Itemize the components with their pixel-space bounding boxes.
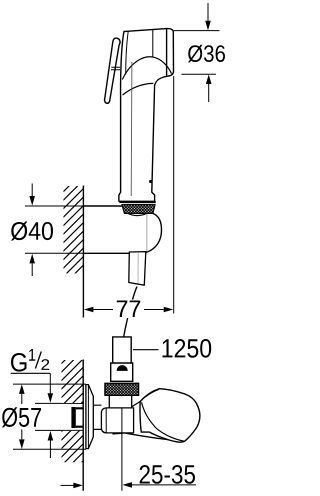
riser tube — [113, 337, 132, 363]
dimension Ø57 — [13, 384, 86, 449]
dimension Ø40 — [25, 184, 83, 277]
Ø36 arrowhead top — [205, 21, 211, 31]
valve bottom step and cone bottom — [113, 433, 125, 434]
wall face line (bottom) — [82, 360, 84, 491]
77 arrowhead left — [84, 307, 94, 313]
Ø40 value text — [11, 222, 53, 241]
hose nut (knurled) — [119, 202, 156, 216]
77 arrowhead right — [164, 307, 174, 313]
head inner arc upper — [122, 57, 171, 80]
Ø36 arrowhead bottom — [206, 74, 212, 84]
25-35 arrowhead left-pointing — [122, 482, 132, 488]
fraction slash — [35, 352, 41, 369]
handle shading line — [130, 62, 133, 196]
25-35 value text — [140, 465, 195, 484]
rim inner line — [166, 29, 168, 77]
fraction numerator 1 — [29, 349, 35, 361]
Ø36 value text — [188, 45, 225, 63]
wall stub pipe — [35, 403, 83, 430]
G1/2 arrowhead down — [48, 393, 54, 403]
union nut (knurled) — [105, 383, 139, 395]
wall hatch (top) — [64, 186, 84, 273]
77 text mask — [115, 300, 143, 319]
head left inner line — [126, 31, 129, 74]
hose — [124, 287, 137, 337]
25-35 arrowhead right-pointing — [73, 483, 83, 489]
neck — [109, 395, 131, 408]
G1/2 leader + arrows — [49, 373, 51, 393]
head inner arc lower — [123, 83, 154, 95]
Ø57 arrowhead bottom — [19, 439, 25, 449]
Ø40 arrowhead bottom — [29, 254, 35, 264]
77 value text — [117, 301, 140, 318]
valve knob — [140, 389, 200, 442]
dimension Ø36 — [174, 3, 220, 102]
handle dot — [149, 180, 152, 183]
escutcheon — [86, 385, 93, 449]
dimension 25-35 — [61, 409, 197, 491]
Ø40 arrowhead top — [29, 196, 35, 206]
fraction denominator 2 — [41, 359, 49, 370]
holder — [83, 206, 161, 253]
lever pivot bar — [111, 67, 120, 70]
slot block dark slot — [117, 365, 128, 371]
Ø57 value text — [2, 407, 41, 427]
holder outlet tube — [129, 252, 146, 286]
holder cup inner line — [146, 214, 148, 252]
1250 value text — [163, 339, 212, 358]
slot block — [111, 363, 133, 381]
hand shower head outline — [119, 29, 174, 202]
pipe from escutcheon — [93, 405, 101, 429]
wall hatch (bottom) — [62, 360, 84, 403]
Ø57 arrowhead top — [19, 384, 25, 394]
dimension 77 — [94, 76, 174, 314]
G letter — [11, 353, 27, 372]
1250 label — [133, 349, 159, 351]
valve body — [101, 408, 133, 433]
trigger lever — [105, 38, 121, 103]
wall face line (top) — [82, 186, 84, 318]
head facet line — [152, 30, 154, 57]
G1/2 arrowhead up — [48, 431, 54, 441]
